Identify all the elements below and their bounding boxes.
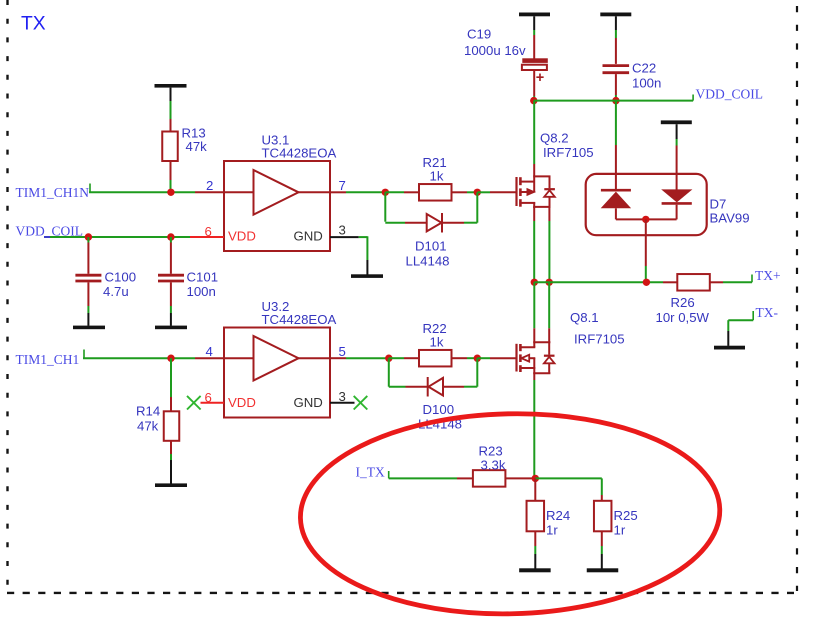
wire to R22	[389, 357, 419, 359]
wire D100 branch right	[443, 358, 477, 387]
node TX+ junction D7	[643, 279, 650, 286]
node out2 right	[474, 355, 481, 362]
label D101	[406, 239, 450, 269]
svg-text:D100: D100	[423, 402, 455, 417]
svg-text:Q8.2: Q8.2	[540, 131, 569, 146]
wire Q8.1 top left	[533, 282, 535, 342]
resistor R24	[527, 501, 545, 532]
svg-text:TX-: TX-	[756, 305, 779, 320]
ground C100	[73, 326, 105, 330]
pin name VDD U3.1	[228, 229, 256, 244]
svg-text:4: 4	[206, 344, 213, 359]
wire R21 right	[452, 191, 478, 193]
net label TX-	[756, 305, 779, 320]
svg-text:TIM1_CH1N: TIM1_CH1N	[16, 185, 90, 200]
wire Q8.2 diode down	[548, 207, 550, 282]
resistor R21	[419, 184, 452, 201]
wire gate Q8.1	[477, 357, 516, 359]
svg-text:3.3k: 3.3k	[481, 458, 506, 473]
svg-text:I_TX: I_TX	[356, 465, 385, 480]
node C22 junction	[612, 97, 619, 104]
node VDD_COIL junction C101	[167, 233, 174, 240]
ground bar above R13	[155, 84, 187, 88]
ground R24	[519, 568, 551, 572]
svg-text:100n: 100n	[187, 284, 216, 299]
label C19	[464, 27, 526, 59]
svg-text:C101: C101	[187, 270, 219, 285]
svg-text:R25: R25	[614, 508, 638, 523]
wire R14 bottom	[170, 441, 172, 484]
wire U3.1 pin3	[330, 236, 367, 274]
svg-text:IRF7105: IRF7105	[543, 145, 594, 160]
op-amp U3.1 triangle	[224, 170, 330, 215]
wire to R21	[385, 191, 419, 193]
wire VDD_COIL rail	[534, 100, 693, 102]
ground C101	[155, 326, 187, 330]
capacitor C19 polarized	[522, 58, 548, 86]
wire R13 bottom	[170, 161, 172, 192]
svg-text:5: 5	[339, 344, 346, 359]
pin name GND U3.2	[294, 395, 323, 410]
wire C19 bottom	[533, 70, 535, 100]
pin 4	[206, 344, 213, 359]
ground R25	[587, 568, 619, 572]
pin 6 U3.2	[205, 390, 212, 405]
wire TX+ tick	[751, 275, 753, 283]
svg-text:R23: R23	[479, 444, 503, 459]
diode D101	[427, 213, 442, 233]
pin 7	[339, 178, 346, 193]
pin name GND U3.1	[294, 229, 323, 244]
svg-text:TIM1_CH1: TIM1_CH1	[16, 352, 80, 367]
wire R25 bottom	[601, 531, 603, 568]
wire gate Q8.2	[477, 191, 516, 193]
wire D7 to TX+	[645, 219, 647, 282]
svg-text:1r: 1r	[614, 523, 626, 538]
resistor R25	[594, 501, 612, 532]
net label TIM1_CH1	[16, 352, 80, 367]
label D100	[418, 402, 462, 432]
svg-text:TC4428EOA: TC4428EOA	[262, 146, 337, 161]
svg-text:VDD: VDD	[228, 229, 256, 244]
wire TX- tick	[752, 311, 754, 320]
svg-text:VDD: VDD	[228, 395, 256, 410]
node TX+ junction left	[531, 279, 538, 286]
wire D7 left top	[615, 101, 617, 190]
svg-text:VDD_COIL: VDD_COIL	[696, 86, 764, 101]
wire Q8.1 source down	[533, 373, 535, 478]
resistor R14	[164, 411, 180, 441]
svg-text:R26: R26	[671, 295, 695, 310]
op-amp U3.2 box	[224, 328, 330, 418]
label R21	[423, 155, 447, 184]
pin 2	[206, 178, 213, 193]
sheet border dashed bottom	[7, 592, 794, 594]
wire C22 top	[615, 16, 617, 64]
label D7	[710, 197, 750, 226]
svg-text:TX: TX	[21, 14, 46, 35]
op-amp U3.1 box	[224, 161, 330, 251]
svg-text:47k: 47k	[137, 419, 159, 434]
op-amp U3.2 triangle	[224, 336, 330, 381]
svg-text:D101: D101	[415, 239, 447, 254]
svg-text:47k: 47k	[186, 139, 208, 154]
supply bar C19	[519, 13, 550, 17]
svg-text:1r: 1r	[546, 523, 558, 538]
svg-text:GND: GND	[294, 395, 323, 410]
node TX+ junction right	[546, 279, 553, 286]
wire I_TX tick	[388, 471, 390, 478]
label R26	[656, 295, 710, 325]
wire TX+ rail	[534, 281, 677, 283]
wire R26 right	[710, 281, 752, 283]
capacitor C100	[75, 275, 101, 281]
net label TIM1_CH1N	[16, 185, 90, 200]
transistor Q8.1	[517, 342, 555, 373]
node VDD_COIL junction C100	[85, 233, 92, 240]
wire U3.2 pin6 stub	[201, 402, 225, 404]
net label VDD_COIL right	[696, 86, 764, 101]
label C22	[632, 61, 661, 91]
wire R23 right	[505, 477, 535, 479]
label Q8.1	[570, 310, 625, 347]
svg-text:+: +	[536, 70, 544, 86]
wire U3.2 pin3 stub	[330, 402, 355, 404]
capacitor C22	[603, 66, 630, 73]
svg-text:C19: C19	[467, 27, 491, 42]
node out1 right	[474, 189, 481, 196]
annotation red ellipse	[298, 409, 721, 618]
no-connect X pin6	[187, 396, 201, 410]
label R25	[614, 508, 638, 538]
wire to R25	[535, 478, 602, 500]
svg-text:GND: GND	[294, 229, 323, 244]
wire TIM1_CH1N tick	[89, 184, 91, 193]
svg-text:100n: 100n	[632, 76, 661, 91]
wire Q8.1 top right	[548, 282, 550, 342]
label U3.2	[262, 299, 337, 327]
wire C22 bottom	[615, 74, 617, 101]
label R22	[423, 321, 447, 350]
wire D100 branch left	[389, 358, 427, 387]
svg-text:4.7u: 4.7u	[103, 284, 129, 299]
sheet border dashed left	[6, 0, 8, 589]
pin 6	[205, 224, 212, 239]
wire R13 top	[170, 88, 172, 132]
wire R24 bottom	[534, 531, 536, 568]
label Q8.2	[540, 131, 594, 161]
wire C101 bottom	[170, 282, 172, 325]
diode D7 left	[601, 190, 631, 219]
pin 3 U3.2	[339, 389, 346, 404]
resistor R22	[419, 350, 452, 367]
wire D101 branch right	[442, 192, 477, 222]
wire C19 top	[533, 16, 535, 59]
wire TIM1_CH1	[83, 357, 224, 359]
capacitor C101	[158, 275, 184, 281]
resistor R26	[677, 274, 710, 291]
wire VDD_COIL tick	[692, 95, 694, 101]
label R24	[546, 508, 570, 538]
label R13 value	[182, 126, 208, 155]
svg-text:IRF7105: IRF7105	[574, 332, 625, 347]
wire U3.1 out	[330, 191, 385, 193]
svg-text:BAV99: BAV99	[710, 211, 750, 226]
node TIM1_CH1 junction	[167, 355, 174, 362]
resistor R23	[473, 470, 506, 487]
svg-text:7: 7	[339, 178, 346, 193]
pin 5	[339, 344, 346, 359]
sheet title TX	[21, 14, 46, 35]
wire Q8.2 source down	[533, 207, 535, 282]
supply bar D7	[661, 120, 692, 124]
wire I_TX	[389, 477, 473, 479]
wire D7 common	[616, 218, 677, 220]
wire TIM1_CH1N	[89, 191, 224, 193]
ground R14	[155, 483, 187, 487]
svg-text:Q8.1: Q8.1	[570, 310, 599, 325]
wire C100 bottom	[87, 282, 89, 325]
supply bar C22	[600, 13, 631, 17]
svg-text:1k: 1k	[430, 335, 444, 350]
svg-text:D7: D7	[710, 197, 727, 212]
svg-text:TC4428EOA: TC4428EOA	[262, 312, 337, 327]
pin 3	[339, 223, 346, 238]
net label VDD_COIL left	[16, 224, 84, 239]
svg-text:1k: 1k	[430, 169, 444, 184]
node I_TX junction	[532, 475, 539, 482]
diode D7 box	[586, 174, 707, 235]
transistor Q8.2	[517, 176, 555, 208]
wire R22 right	[452, 357, 478, 359]
net label I_TX	[356, 465, 385, 480]
svg-text:R14: R14	[136, 404, 160, 419]
svg-text:TX+: TX+	[755, 268, 781, 283]
wire U3.2 out	[330, 357, 389, 359]
node C19 junction	[530, 97, 537, 104]
net label TX+	[755, 268, 781, 283]
label U3.1	[262, 133, 337, 161]
svg-text:C100: C100	[105, 270, 137, 285]
node out2 left	[385, 355, 392, 362]
svg-text:10r 0,5W: 10r 0,5W	[656, 310, 710, 325]
wire R14 top	[170, 358, 172, 411]
wire TIM1_CH1 tick	[83, 350, 85, 359]
wire C100 top	[87, 237, 89, 274]
wire D7 right top	[676, 124, 678, 190]
svg-text:3: 3	[339, 223, 346, 238]
svg-text:C22: C22	[632, 61, 656, 76]
wire TX-	[728, 320, 753, 346]
ground U3.1	[351, 274, 383, 278]
diode D100	[428, 377, 443, 397]
label R23	[479, 444, 506, 473]
node TIM1_CH1N junction	[167, 189, 174, 196]
no-connect X pin3	[354, 396, 368, 410]
label C100	[103, 270, 136, 300]
node out1 left	[382, 189, 389, 196]
label R14	[136, 404, 160, 434]
wire R24 top	[534, 478, 536, 500]
wire D101 branch left	[385, 192, 426, 222]
svg-text:R24: R24	[546, 508, 570, 523]
wire VDD_COIL	[44, 236, 224, 238]
svg-text:2: 2	[206, 178, 213, 193]
sheet border dashed right	[796, 6, 798, 591]
diode D7 right	[661, 189, 692, 219]
node D7 common	[642, 216, 649, 223]
wire C101 top	[170, 237, 172, 274]
label C101	[187, 270, 219, 300]
resistor R13	[162, 132, 178, 162]
wire Q8.2 drain from rail	[533, 101, 535, 177]
svg-text:1000u 16v: 1000u 16v	[464, 43, 526, 58]
pin name VDD U3.2	[228, 395, 256, 410]
svg-text:LL4148: LL4148	[406, 254, 450, 269]
ground TX-	[714, 346, 745, 350]
